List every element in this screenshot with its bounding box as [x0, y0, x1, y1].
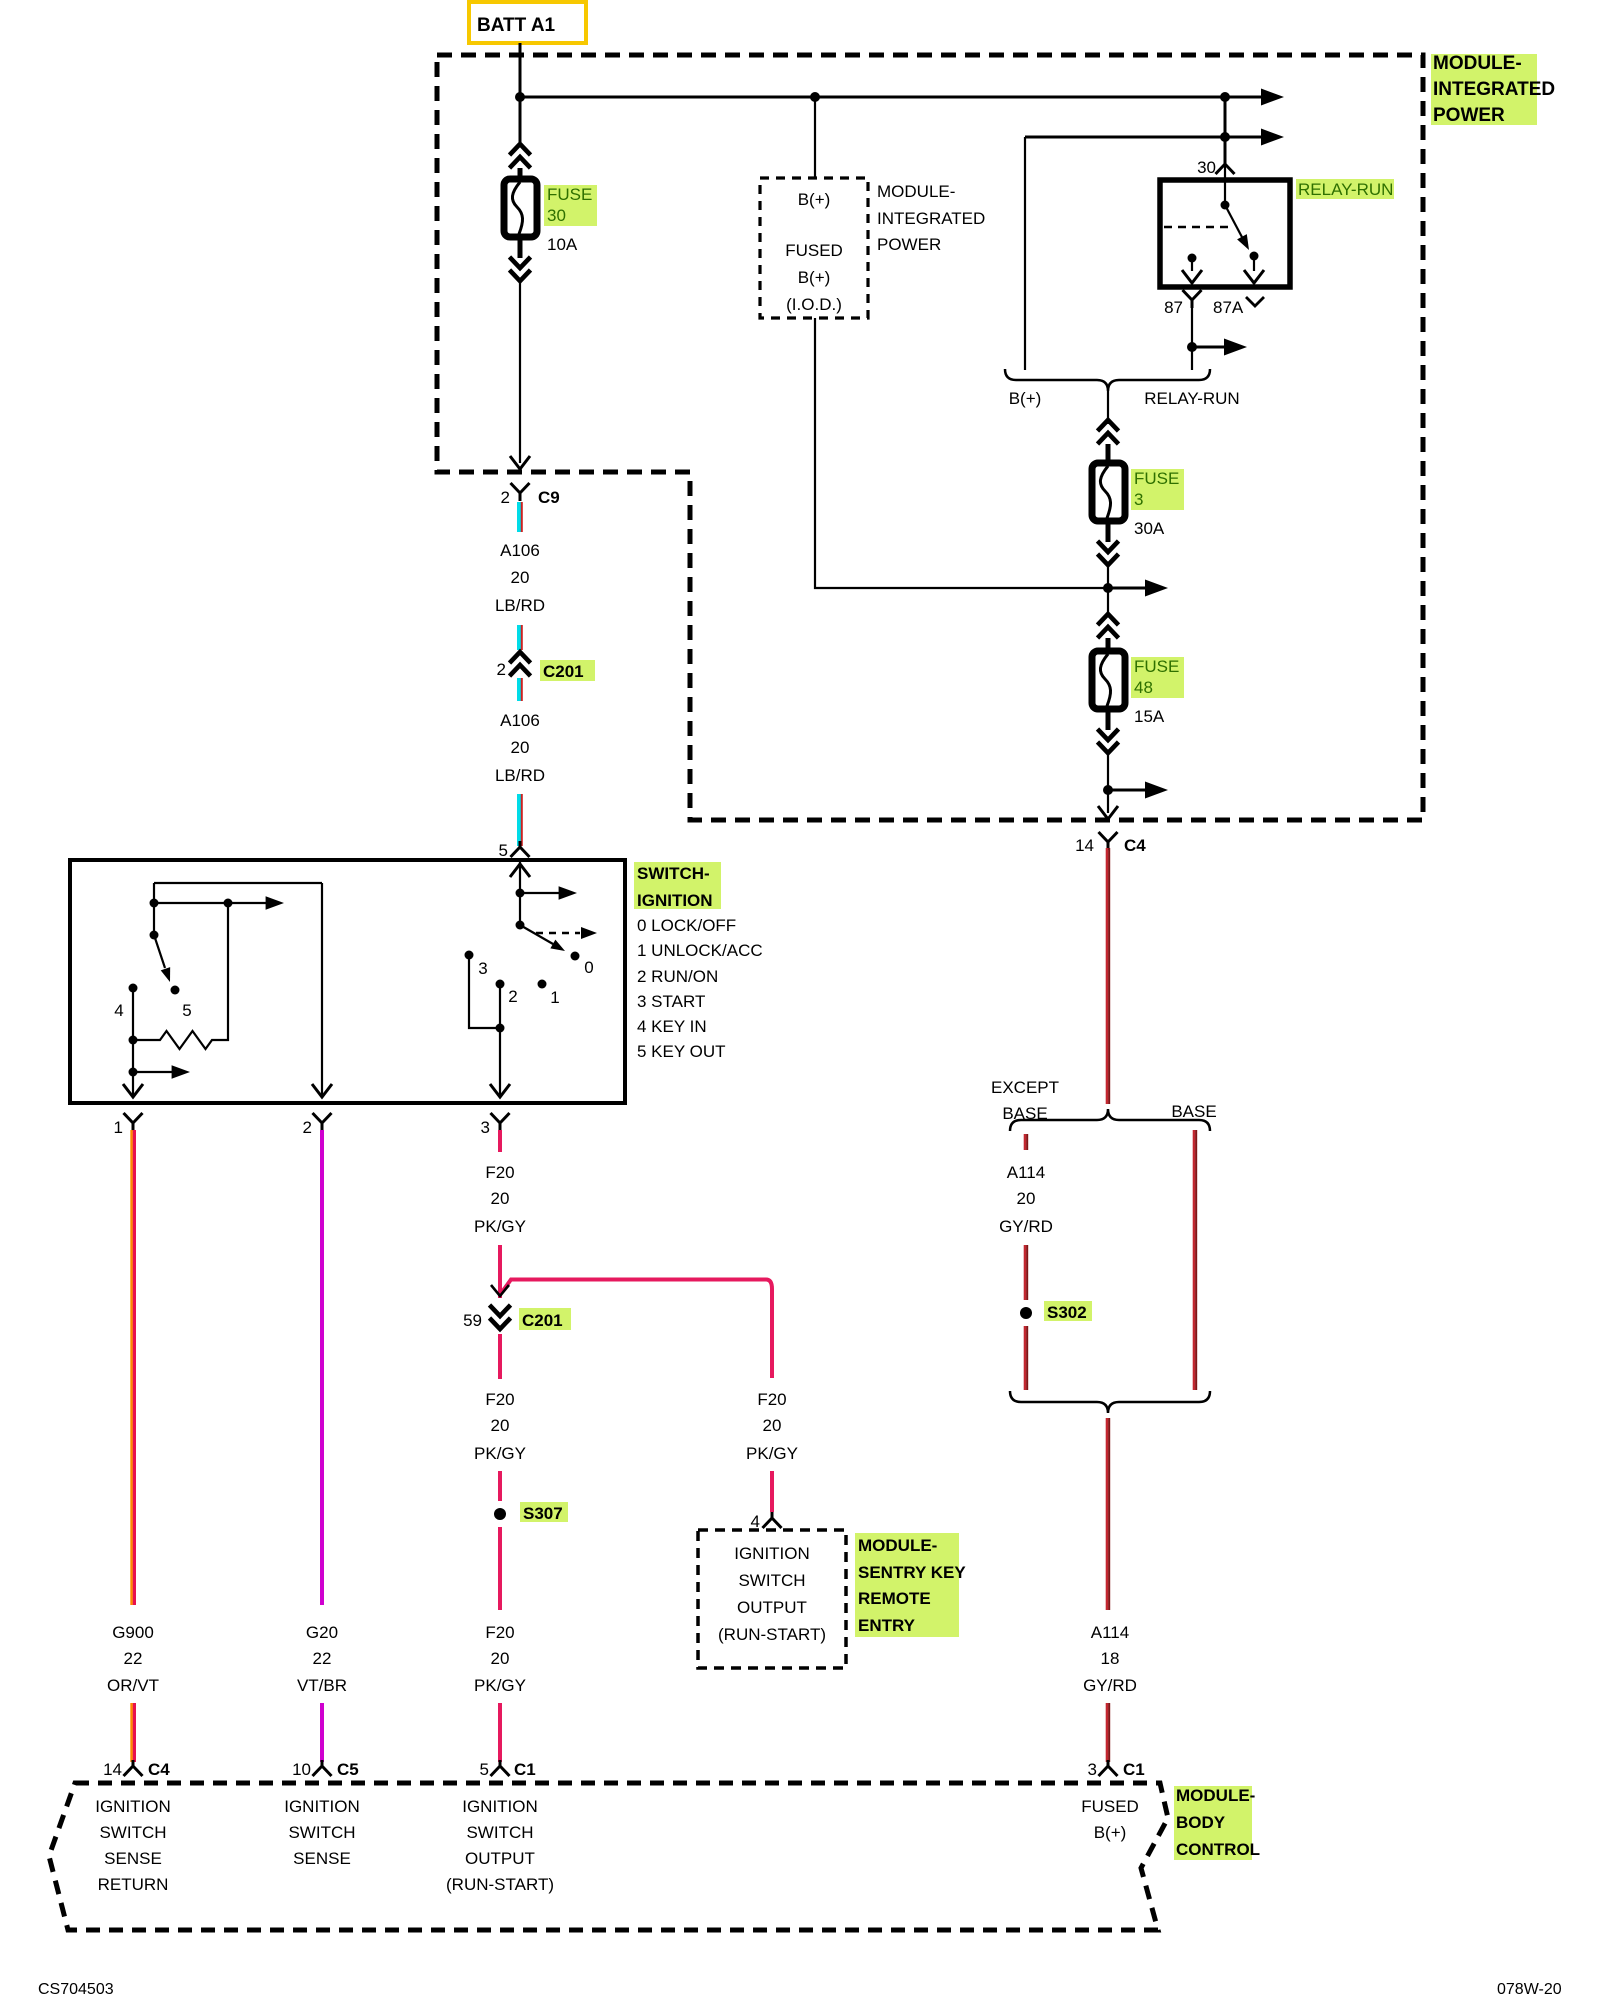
- svg-text:20: 20: [1017, 1189, 1036, 1208]
- node contact 2: [496, 980, 505, 989]
- svg-text:CS704503: CS704503: [38, 1981, 114, 1998]
- wire A114 18 GY/RD: [1107, 1418, 1109, 1610]
- svg-text:LB/RD: LB/RD: [495, 766, 545, 785]
- wire G900 OR/VT seg2: [132, 1703, 135, 1762]
- wire F20 PK/GY seg4: [498, 1471, 502, 1501]
- wire F20 PK/GY seg5: [498, 1527, 502, 1610]
- svg-text:B(+): B(+): [1094, 1823, 1127, 1842]
- svg-text:2: 2: [497, 660, 506, 679]
- brace merge bottom: [1010, 1391, 1210, 1413]
- svg-text:1: 1: [114, 1118, 123, 1137]
- svg-text:0 LOCK/OFF: 0 LOCK/OFF: [637, 916, 736, 935]
- svg-text:RETURN: RETURN: [98, 1875, 169, 1894]
- svg-text:5: 5: [182, 1001, 191, 1020]
- svg-text:SWITCH: SWITCH: [288, 1823, 355, 1842]
- svg-text:20: 20: [511, 568, 530, 587]
- wire pin5 entry: [519, 858, 521, 925]
- svg-text:MODULE-: MODULE-: [1433, 53, 1522, 74]
- wire G20 VT/BR seg2: [320, 1703, 324, 1762]
- svg-text:PK/GY: PK/GY: [474, 1676, 526, 1695]
- svg-text:B(+): B(+): [798, 190, 831, 209]
- wire A114 seg2: [1107, 1703, 1109, 1762]
- svg-text:4: 4: [114, 1001, 123, 1020]
- switch internals: ignition rotary: [465, 858, 598, 1097]
- node contact 0: [571, 952, 580, 961]
- svg-text:30: 30: [1197, 158, 1216, 177]
- svg-text:10A: 10A: [547, 235, 578, 254]
- fuse F30: [504, 168, 537, 258]
- module B(+) I.O.D. dashed box: [760, 178, 868, 318]
- svg-text:1: 1: [550, 988, 559, 1007]
- svg-text:A106: A106: [500, 711, 540, 730]
- dashed border MODULE-INTEGRATED POWER: [437, 55, 1423, 820]
- svg-text:5: 5: [499, 841, 508, 860]
- svg-text:VT/BR: VT/BR: [297, 1676, 347, 1695]
- label IGNITION SWITCH SENSE RETURN: [95, 1797, 171, 1894]
- svg-text:14: 14: [1075, 836, 1094, 855]
- svg-text:C5: C5: [337, 1760, 359, 1779]
- svg-text:B(+): B(+): [798, 268, 831, 287]
- svg-text:OUTPUT: OUTPUT: [737, 1598, 807, 1617]
- svg-text:SWITCH: SWITCH: [466, 1823, 533, 1842]
- wire F20 PK/GY seg3: [498, 1334, 502, 1379]
- svg-text:20: 20: [491, 1189, 510, 1208]
- connector C201 pin 59: [490, 1305, 511, 1329]
- svg-text:MODULE-: MODULE-: [877, 182, 955, 201]
- svg-text:(RUN-START): (RUN-START): [718, 1625, 826, 1644]
- svg-text:OR/VT: OR/VT: [107, 1676, 159, 1695]
- node bus junction: [515, 92, 525, 102]
- svg-text:GY/RD: GY/RD: [1083, 1676, 1137, 1695]
- svg-text:22: 22: [313, 1649, 332, 1668]
- fuse F3 off-page connector (down): [1098, 541, 1119, 565]
- wire F20 PK/GY seg2: [498, 1245, 502, 1298]
- svg-text:B(+): B(+): [1009, 389, 1042, 408]
- wire B(+) drop: [814, 97, 816, 178]
- wire top bus: [520, 96, 1262, 99]
- svg-text:FUSED: FUSED: [785, 241, 843, 260]
- svg-text:EXCEPT: EXCEPT: [991, 1078, 1059, 1097]
- svg-text:SENSE: SENSE: [293, 1849, 351, 1868]
- svg-text:87: 87: [1164, 298, 1183, 317]
- svg-text:PK/GY: PK/GY: [474, 1217, 526, 1236]
- svg-text:IGNITION: IGNITION: [95, 1797, 171, 1816]
- svg-text:IGNITION: IGNITION: [734, 1544, 810, 1563]
- brace split top: [1010, 1109, 1210, 1131]
- wire pin3 drop: [499, 984, 501, 1095]
- node contact 1: [538, 980, 547, 989]
- relay RELAY-RUN: [1160, 180, 1290, 287]
- wire pin2 drop: [321, 883, 323, 1095]
- svg-text:22: 22: [124, 1649, 143, 1668]
- svg-text:IGNITION: IGNITION: [637, 891, 713, 910]
- svg-text:BATT A1: BATT A1: [477, 15, 556, 36]
- label SWITCH-IGNITION: [634, 862, 763, 1061]
- label FUSE 30 10A: [544, 185, 597, 254]
- wire F3 to junction: [1107, 565, 1109, 612]
- wire A114 GY/RD from C4: [1107, 848, 1109, 1104]
- resistor: [129, 1036, 138, 1045]
- svg-text:PK/GY: PK/GY: [746, 1444, 798, 1463]
- svg-text:87A: 87A: [1213, 298, 1244, 317]
- fuse F48 off-page connector (down): [1098, 729, 1119, 753]
- wire relay feed: [1224, 97, 1227, 158]
- svg-text:C201: C201: [522, 1311, 563, 1330]
- svg-text:LB/RD: LB/RD: [495, 596, 545, 615]
- node junction at relay drop: [1220, 92, 1230, 102]
- svg-text:3 START: 3 START: [637, 992, 705, 1011]
- wire A114 right branch: [1194, 1130, 1196, 1390]
- svg-text:POWER: POWER: [877, 235, 941, 254]
- wire from BATT A1 down: [519, 43, 522, 142]
- svg-text:MODULE-: MODULE-: [858, 1536, 937, 1555]
- wire A114 left seg3: [1025, 1326, 1027, 1390]
- svg-text:BODY: BODY: [1176, 1813, 1226, 1832]
- fuse F48 off-page connector (up): [1098, 614, 1119, 638]
- battery feed box BATT A1: [469, 2, 586, 43]
- svg-text:SWITCH: SWITCH: [99, 1823, 166, 1842]
- switch SWITCH-IGNITION box: [70, 860, 625, 1103]
- switch blade key-in: [150, 931, 159, 940]
- module MODULE-BODY CONTROL dashed outline: [49, 1783, 1168, 1930]
- svg-text:PK/GY: PK/GY: [474, 1444, 526, 1463]
- svg-text:ENTRY: ENTRY: [858, 1616, 916, 1635]
- wire F30 to C9: [519, 281, 521, 463]
- svg-text:4: 4: [751, 1512, 760, 1531]
- wire F20 PK/GY seg1: [498, 1130, 502, 1152]
- svg-text:C1: C1: [514, 1760, 536, 1779]
- svg-text:C9: C9: [538, 488, 560, 507]
- svg-text:2 RUN/ON: 2 RUN/ON: [637, 967, 718, 986]
- wire left drop to brace: [1024, 137, 1026, 370]
- svg-text:20: 20: [491, 1416, 510, 1435]
- module MODULE-SENTRY KEY REMOTE ENTRY: [698, 1530, 846, 1668]
- svg-text:2: 2: [508, 987, 517, 1006]
- wire dashed future position: [536, 932, 580, 935]
- svg-text:FUSED: FUSED: [1081, 1797, 1139, 1816]
- label FUSE 3 30A: [1131, 469, 1184, 538]
- wire G20 VT/BR seg1: [320, 1130, 324, 1605]
- svg-text:CONTROL: CONTROL: [1176, 1840, 1260, 1859]
- node junction below F3: [1103, 583, 1113, 593]
- svg-text:5 KEY OUT: 5 KEY OUT: [637, 1042, 726, 1061]
- node junction below F48: [1103, 785, 1113, 795]
- svg-text:4 KEY IN: 4 KEY IN: [637, 1017, 707, 1036]
- svg-text:14: 14: [103, 1760, 122, 1779]
- node contact 3: [465, 951, 474, 960]
- node junction 87 arrow: [1187, 342, 1197, 352]
- label IGNITION SWITCH OUTPUT (RUN-START): [446, 1797, 554, 1894]
- svg-text:A114: A114: [1091, 1623, 1129, 1642]
- svg-text:RELAY-RUN: RELAY-RUN: [1298, 180, 1393, 199]
- node contact 4: [129, 984, 138, 993]
- wire A106 LB/RD seg1: [519, 502, 522, 532]
- svg-text:MODULE-: MODULE-: [1176, 1786, 1255, 1805]
- fuse F3: [1092, 444, 1125, 542]
- wire G900 OR/VT seg1: [132, 1130, 135, 1605]
- svg-text:(RUN-START): (RUN-START): [446, 1875, 554, 1894]
- splice S307: [494, 1508, 506, 1520]
- svg-text:INTEGRATED: INTEGRATED: [1433, 79, 1555, 100]
- fuse F3 off-page connector (up): [1098, 420, 1119, 444]
- connector C201 pin 2: [510, 652, 531, 676]
- svg-text:30: 30: [547, 206, 566, 225]
- svg-text:IGNITION: IGNITION: [284, 1797, 360, 1816]
- svg-text:OUTPUT: OUTPUT: [465, 1849, 535, 1868]
- label MODULE-BODY CONTROL: [1174, 1786, 1260, 1860]
- wire pin1 drop: [132, 988, 134, 1095]
- svg-text:20: 20: [491, 1649, 510, 1668]
- svg-text:POWER: POWER: [1433, 105, 1505, 126]
- svg-text:C4: C4: [148, 1760, 170, 1779]
- svg-text:BASE: BASE: [1171, 1102, 1216, 1121]
- svg-text:A106: A106: [500, 541, 540, 560]
- svg-text:FUSE: FUSE: [1134, 469, 1179, 488]
- svg-text:RELAY-RUN: RELAY-RUN: [1144, 389, 1239, 408]
- svg-text:G900: G900: [112, 1623, 154, 1642]
- svg-text:F20: F20: [757, 1390, 786, 1409]
- svg-text:078W-20: 078W-20: [1497, 1981, 1562, 1998]
- svg-text:SENTRY KEY: SENTRY KEY: [858, 1563, 966, 1582]
- svg-text:3: 3: [1134, 490, 1143, 509]
- wire F20 PK/GY seg6: [498, 1703, 502, 1762]
- svg-text:SWITCH-: SWITCH-: [637, 864, 710, 883]
- label IGNITION SWITCH SENSE: [284, 1797, 360, 1868]
- wire 87 down: [1191, 305, 1193, 370]
- svg-text:3: 3: [1088, 1760, 1097, 1779]
- svg-text:10: 10: [292, 1760, 311, 1779]
- svg-text:FUSE: FUSE: [547, 185, 592, 204]
- label FUSED B(+): [1081, 1797, 1139, 1842]
- svg-text:INTEGRATED: INTEGRATED: [877, 209, 985, 228]
- wire A114 left seg2: [1025, 1245, 1027, 1300]
- wire contact3 link: [469, 955, 500, 1028]
- svg-text:SENSE: SENSE: [104, 1849, 162, 1868]
- svg-text:20: 20: [511, 738, 530, 757]
- brace B(+)/RELAY-RUN: [1005, 369, 1210, 391]
- svg-text:S307: S307: [523, 1504, 563, 1523]
- wire brace to F3: [1107, 391, 1109, 424]
- svg-text:S302: S302: [1047, 1303, 1087, 1322]
- wire F48 to C4: [1107, 753, 1109, 813]
- fuse F30 off-page connector (down): [510, 257, 531, 281]
- svg-text:(I.O.D.): (I.O.D.): [786, 295, 842, 314]
- node contact 5: [171, 986, 180, 995]
- svg-text:C1: C1: [1123, 1760, 1145, 1779]
- wire second bus to arrow: [1025, 136, 1262, 139]
- label MODULE-INTEGRATED POWER (near B+): [877, 182, 985, 254]
- fuse F30 off-page connector (up): [510, 144, 531, 168]
- label MODULE-SENTRY KEY REMOTE ENTRY: [855, 1533, 966, 1637]
- svg-text:0: 0: [584, 958, 593, 977]
- splice S302: [1020, 1307, 1032, 1319]
- svg-text:FUSE: FUSE: [1134, 657, 1179, 676]
- svg-text:F20: F20: [485, 1163, 514, 1182]
- label RELAY-RUN: [1296, 179, 1394, 199]
- wire A106 LB/RD seg3: [519, 678, 522, 701]
- svg-text:GY/RD: GY/RD: [999, 1217, 1053, 1236]
- switch internals: key-in circuit: [114, 883, 332, 1097]
- wire branch to sentry key: [502, 1280, 772, 1379]
- svg-text:3: 3: [478, 959, 487, 978]
- switch blade rotary: [516, 921, 525, 930]
- svg-text:15A: 15A: [1134, 707, 1165, 726]
- svg-text:1 UNLOCK/ACC: 1 UNLOCK/ACC: [637, 941, 763, 960]
- svg-text:3: 3: [481, 1118, 490, 1137]
- node contact: [150, 899, 159, 908]
- svg-text:30A: 30A: [1134, 519, 1165, 538]
- svg-text:18: 18: [1101, 1649, 1120, 1668]
- fuse F48: [1092, 638, 1125, 730]
- wire top link: [154, 882, 322, 884]
- label FUSE 48 15A: [1131, 657, 1184, 726]
- svg-text:A114: A114: [1007, 1163, 1045, 1182]
- node junction at B(+) drop: [810, 92, 820, 102]
- svg-text:REMOTE: REMOTE: [858, 1589, 931, 1608]
- wire A114 left seg1: [1025, 1134, 1027, 1150]
- label MODULE-INTEGRATED POWER (top right): [1431, 53, 1555, 126]
- svg-text:G20: G20: [306, 1623, 338, 1642]
- svg-text:SWITCH: SWITCH: [738, 1571, 805, 1590]
- svg-text:IGNITION: IGNITION: [462, 1797, 538, 1816]
- svg-text:2: 2: [303, 1118, 312, 1137]
- wire A106 LB/RD seg4: [519, 794, 522, 846]
- wire branch seg2: [770, 1471, 774, 1512]
- svg-text:59: 59: [463, 1311, 482, 1330]
- wire to resistor column: [154, 902, 228, 904]
- svg-text:2: 2: [501, 488, 510, 507]
- wire A106 LB/RD seg2: [519, 625, 522, 650]
- svg-text:C201: C201: [543, 662, 584, 681]
- svg-text:20: 20: [763, 1416, 782, 1435]
- node tap: [129, 1068, 138, 1077]
- wire left stem: [153, 883, 155, 935]
- svg-text:48: 48: [1134, 678, 1153, 697]
- svg-text:5: 5: [480, 1760, 489, 1779]
- wire from B(+) module to junction: [815, 318, 1108, 588]
- svg-text:F20: F20: [485, 1390, 514, 1409]
- svg-text:C4: C4: [1124, 836, 1146, 855]
- svg-text:F20: F20: [485, 1623, 514, 1642]
